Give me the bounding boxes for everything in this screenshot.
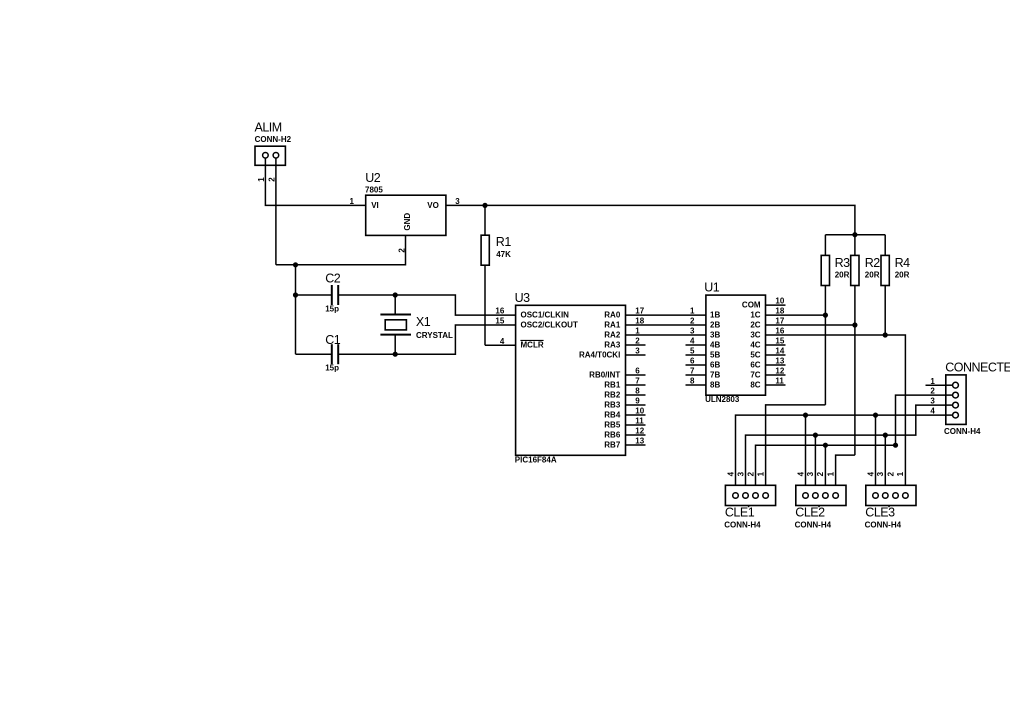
wire U2 GND to ALIM pin2 [276, 235, 406, 264]
U3 pin 12 stub [626, 427, 646, 436]
svg-text:C1: C1 [325, 333, 341, 347]
svg-text:MCLR: MCLR [521, 341, 544, 350]
svg-text:3: 3 [806, 471, 815, 476]
svg-text:OSC2/CLKOUT: OSC2/CLKOUT [521, 321, 578, 330]
wire CLE3 pin3 drop [884, 435, 886, 493]
U1 pin 15 stub [766, 337, 786, 346]
svg-text:2: 2 [930, 387, 935, 396]
svg-text:1C: 1C [750, 311, 760, 320]
svg-text:3: 3 [635, 347, 640, 356]
connector CLE2 CONN-H4 [795, 485, 846, 529]
U1 pin 8 stub [686, 377, 706, 386]
U3 pin 11 stub [626, 417, 646, 426]
node CLE3 pin3 junction [883, 433, 888, 438]
wire cap branch vertical [295, 265, 297, 354]
svg-text:R4: R4 [895, 256, 911, 270]
crystal X1 [380, 295, 453, 354]
wire U2 VO to rail corner [446, 205, 855, 234]
darlington array U1 ULN2803 [704, 281, 765, 405]
svg-text:47K: 47K [496, 250, 511, 259]
svg-text:R2: R2 [865, 256, 881, 270]
svg-text:CLE2: CLE2 [795, 506, 825, 520]
node C2 left junction [293, 292, 298, 297]
svg-text:8C: 8C [750, 381, 760, 390]
svg-text:RB3: RB3 [604, 401, 621, 410]
svg-text:10: 10 [775, 297, 784, 306]
svg-text:RB7: RB7 [604, 441, 621, 450]
wire resistor rail [825, 234, 885, 236]
svg-text:U1: U1 [704, 281, 720, 295]
node VO junction [482, 203, 487, 208]
svg-text:CONN-H2: CONN-H2 [255, 135, 292, 144]
connector CLE3 CONN-H4 [865, 485, 916, 529]
svg-text:3: 3 [736, 471, 745, 476]
capacitor C1 15p [296, 333, 396, 373]
svg-text:15p: 15p [325, 364, 339, 373]
svg-text:2C: 2C [750, 321, 760, 330]
svg-text:12: 12 [635, 427, 644, 436]
node crystal top junction [393, 292, 398, 297]
svg-text:3: 3 [876, 471, 885, 476]
svg-text:CONNECTEUR: CONNECTEUR [945, 361, 1010, 375]
node GND branch junction [293, 262, 298, 267]
svg-text:4: 4 [500, 337, 505, 346]
U3 pin 10 stub [626, 407, 646, 416]
svg-text:7805: 7805 [365, 186, 383, 195]
svg-text:RA0: RA0 [604, 311, 621, 320]
svg-text:1: 1 [349, 197, 354, 206]
svg-text:18: 18 [635, 317, 644, 326]
connector ALIM CONN-H2 [255, 121, 292, 166]
svg-text:4: 4 [690, 337, 695, 346]
svg-text:1B: 1B [710, 311, 720, 320]
svg-text:16: 16 [775, 327, 784, 336]
wire RA2 to 3B [626, 334, 706, 336]
U3 pin 2 stub [626, 337, 646, 346]
svg-text:RA3: RA3 [604, 341, 621, 350]
connector CLE1 CONN-H4 [724, 485, 775, 529]
svg-text:CLE3: CLE3 [865, 506, 895, 520]
svg-text:ALIM: ALIM [255, 121, 282, 135]
wire 1C to R3 [766, 314, 826, 316]
wire RA0 to 1B [626, 314, 706, 316]
svg-text:4: 4 [726, 471, 735, 476]
U1 COM pin 10 stub [766, 297, 786, 306]
svg-text:7B: 7B [710, 371, 720, 380]
svg-text:CONN-H4: CONN-H4 [865, 520, 902, 529]
svg-text:5C: 5C [750, 351, 760, 360]
svg-text:R1: R1 [496, 235, 512, 249]
svg-text:4: 4 [930, 407, 935, 416]
wire ALIM pin1 to U2 VI [265, 158, 365, 205]
svg-text:1: 1 [690, 307, 695, 316]
svg-text:RA1: RA1 [604, 321, 621, 330]
wire pin4 net [736, 415, 946, 493]
node CLE2 pin4 junction [803, 413, 808, 418]
svg-text:5: 5 [690, 347, 695, 356]
node R2 output junction [852, 322, 857, 327]
svg-text:RB2: RB2 [604, 391, 621, 400]
svg-text:3: 3 [930, 397, 935, 406]
svg-text:2: 2 [635, 337, 640, 346]
node R3 output junction [823, 313, 828, 318]
svg-text:12: 12 [775, 367, 784, 376]
svg-text:3C: 3C [750, 331, 760, 340]
wire ALIM pin2 down [275, 158, 277, 265]
svg-text:9: 9 [635, 397, 640, 406]
U1 pin 11 stub [766, 377, 786, 386]
svg-text:ULN2803: ULN2803 [705, 395, 740, 404]
svg-text:GND: GND [403, 213, 412, 231]
svg-text:6: 6 [635, 367, 640, 376]
svg-text:C2: C2 [325, 272, 341, 286]
svg-text:1: 1 [896, 471, 905, 476]
U1 pin 6 stub [686, 357, 706, 366]
svg-text:2: 2 [886, 471, 895, 476]
U1 pin 13 stub [766, 357, 786, 366]
U3 pin 6 stub [626, 367, 646, 376]
svg-text:RB0/INT: RB0/INT [589, 371, 620, 380]
svg-text:RB4: RB4 [604, 411, 621, 420]
svg-text:6B: 6B [710, 361, 720, 370]
svg-text:2: 2 [690, 317, 695, 326]
svg-text:CONN-H4: CONN-H4 [944, 427, 981, 436]
svg-text:VI: VI [371, 201, 379, 210]
svg-text:4: 4 [866, 471, 875, 476]
node CLE2 pin2 junction [823, 443, 828, 448]
svg-text:3: 3 [690, 327, 695, 336]
svg-text:6: 6 [690, 357, 695, 366]
svg-text:7: 7 [635, 377, 640, 386]
svg-text:15: 15 [775, 337, 784, 346]
U3 pin 7 stub [626, 377, 646, 386]
U1 pin 4 stub [686, 337, 706, 346]
U3 pin 8 stub [626, 387, 646, 396]
svg-text:10: 10 [635, 407, 644, 416]
node R4 output junction [883, 332, 888, 337]
wire CLE3 pin4 drop [875, 415, 877, 493]
U3 pin 3 stub [626, 347, 646, 356]
svg-text:3: 3 [455, 197, 460, 206]
svg-text:7: 7 [690, 367, 695, 376]
svg-text:3B: 3B [710, 331, 720, 340]
svg-text:17: 17 [775, 317, 784, 326]
node crystal bottom junction [393, 352, 398, 357]
svg-text:13: 13 [775, 357, 784, 366]
svg-text:11: 11 [775, 377, 784, 386]
resistor R3 20R [821, 235, 850, 405]
wire C1 to OSC2 jog [395, 325, 515, 354]
wire R2 to CLE2 pin1 [836, 455, 855, 493]
svg-text:8: 8 [690, 377, 695, 386]
svg-text:4: 4 [796, 471, 805, 476]
svg-text:CONN-H4: CONN-H4 [795, 520, 832, 529]
node CLE3 pin4 junction [873, 413, 878, 418]
wire CLE2 pin3 drop [814, 435, 816, 493]
wire pin3 net [746, 405, 946, 493]
svg-text:13: 13 [635, 437, 644, 446]
microcontroller U3 PIC16F84A [515, 291, 626, 465]
resistor R2 20R [851, 235, 881, 455]
wire 2C to R2 [766, 324, 855, 326]
svg-text:RA4/T0CKI: RA4/T0CKI [579, 351, 620, 360]
svg-text:8B: 8B [710, 381, 720, 390]
wire C2 to OSC1 jog [395, 295, 515, 315]
U1 pin 5 stub [686, 347, 706, 356]
wire R3 to CLE1 pin1 [766, 405, 826, 493]
wire R1 to MCLR [485, 344, 516, 346]
svg-text:RA2: RA2 [604, 331, 621, 340]
svg-text:17: 17 [635, 307, 644, 316]
svg-text:U2: U2 [365, 171, 381, 185]
svg-text:20R: 20R [865, 271, 880, 280]
svg-text:6C: 6C [750, 361, 760, 370]
svg-text:PIC16F84A: PIC16F84A [515, 456, 557, 465]
svg-text:CONN-H4: CONN-H4 [724, 520, 761, 529]
svg-text:18: 18 [775, 307, 784, 316]
wire 3C through R4 to CLE3 pin1 [766, 335, 906, 493]
wire CLE2 pin4 drop [805, 415, 807, 493]
svg-text:OSC1/CLKIN: OSC1/CLKIN [521, 311, 570, 320]
svg-text:RB5: RB5 [604, 421, 621, 430]
svg-text:RB1: RB1 [604, 381, 621, 390]
wire pin2 net [756, 395, 946, 493]
voltage regulator U2 7805 [365, 171, 446, 235]
resistor R1 47K [481, 205, 511, 345]
node CLE3 pin2 junction [893, 443, 898, 448]
svg-text:8: 8 [635, 387, 640, 396]
svg-text:14: 14 [775, 347, 784, 356]
connector CONNECTE CONN-H4 [944, 361, 1010, 436]
U3 pin 9 stub [626, 397, 646, 406]
capacitor C2 15p [296, 272, 396, 314]
svg-text:11: 11 [635, 417, 644, 426]
svg-text:RB6: RB6 [604, 431, 621, 440]
svg-text:1: 1 [756, 471, 765, 476]
U3 pin 13 stub [626, 437, 646, 446]
wire RA1 to 2B [626, 324, 706, 326]
node CLE2 pin3 junction [813, 433, 818, 438]
svg-text:4B: 4B [710, 341, 720, 350]
U1 pin 14 stub [766, 347, 786, 356]
svg-text:COM: COM [742, 301, 761, 310]
svg-text:U3: U3 [515, 291, 531, 305]
svg-text:X1: X1 [416, 315, 431, 329]
node rail junction [852, 232, 857, 237]
svg-text:1: 1 [826, 471, 835, 476]
svg-text:2: 2 [816, 471, 825, 476]
svg-text:4C: 4C [750, 341, 760, 350]
svg-text:16: 16 [495, 307, 504, 316]
svg-text:20R: 20R [835, 271, 850, 280]
svg-text:1: 1 [930, 377, 935, 386]
svg-text:CLE1: CLE1 [725, 506, 755, 520]
svg-text:20R: 20R [895, 271, 910, 280]
resistor R4 20R [881, 235, 910, 335]
svg-text:15: 15 [495, 317, 504, 326]
svg-text:VO: VO [427, 201, 439, 210]
svg-text:CRYSTAL: CRYSTAL [416, 331, 453, 340]
U1 pin 12 stub [766, 367, 786, 376]
U1 pin 7 stub [686, 367, 706, 376]
svg-text:1: 1 [635, 327, 640, 336]
svg-text:R3: R3 [835, 256, 851, 270]
wire CLE2 pin2 drop [824, 445, 826, 493]
svg-text:5B: 5B [710, 351, 720, 360]
svg-text:7C: 7C [750, 371, 760, 380]
svg-text:15p: 15p [325, 305, 339, 314]
wire CONNECTE pin1 stub [926, 384, 946, 386]
svg-text:2B: 2B [710, 321, 720, 330]
svg-text:2: 2 [746, 471, 755, 476]
